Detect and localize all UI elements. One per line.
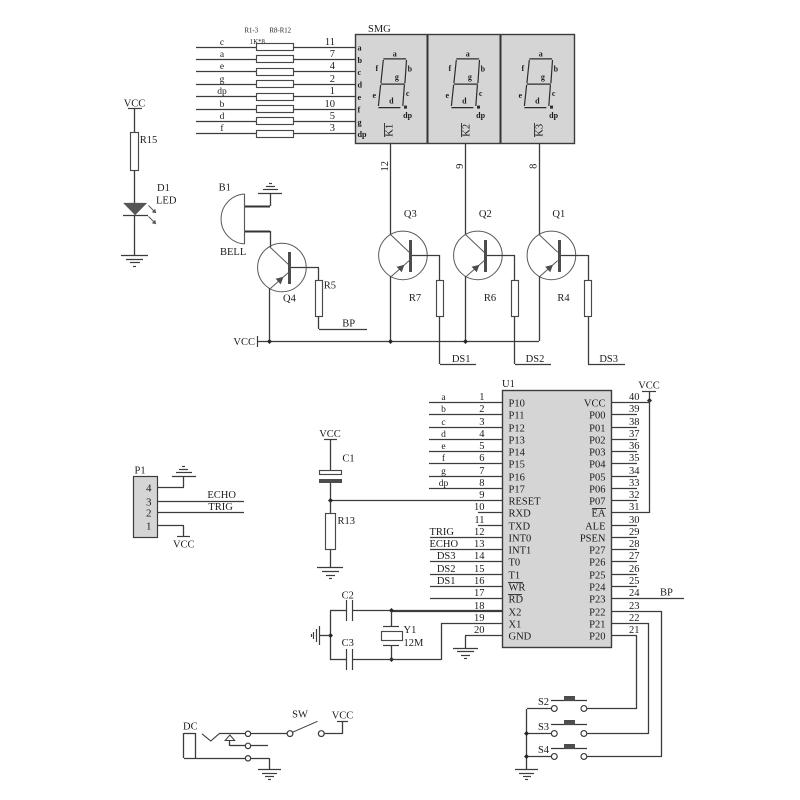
resistor R network row 3	[257, 69, 294, 76]
wire U1 pin 26	[611, 574, 637, 576]
wire base to resistor R4	[588, 255, 590, 281]
svg-text:T1: T1	[509, 571, 521, 582]
svg-text:c: c	[552, 89, 556, 98]
wire U1 pin 4	[429, 439, 502, 441]
svg-text:e: e	[441, 442, 445, 452]
svg-text:c: c	[479, 89, 483, 98]
power VCC (after switch)	[337, 721, 348, 723]
wire R6 to DS2	[514, 317, 516, 364]
svg-text:Q2: Q2	[479, 209, 492, 220]
wire U1 pin 32	[611, 500, 637, 502]
resistor R network row 5	[257, 94, 294, 101]
svg-text:a: a	[466, 49, 470, 58]
svg-text:f: f	[375, 64, 378, 73]
svg-text:12: 12	[380, 161, 391, 172]
wire U1 pin 31	[611, 512, 649, 514]
svg-text:K3: K3	[535, 124, 546, 137]
wire to side ground	[319, 635, 330, 637]
svg-text:26: 26	[629, 564, 640, 575]
svg-text:6: 6	[479, 453, 484, 464]
wire net c (left)	[196, 47, 256, 49]
svg-text:Q3: Q3	[404, 209, 417, 220]
svg-text:TXD: TXD	[509, 522, 531, 533]
svg-text:P03: P03	[589, 448, 605, 459]
svg-text:e: e	[358, 93, 362, 102]
wire U1 pin 11	[478, 525, 502, 527]
svg-text:R5: R5	[324, 281, 336, 292]
svg-text:28: 28	[629, 539, 640, 550]
svg-text:BP: BP	[342, 318, 355, 329]
svg-text:20: 20	[474, 625, 485, 636]
svg-text:K1: K1	[384, 124, 395, 137]
svg-text:14: 14	[474, 551, 485, 562]
svg-text:c: c	[441, 418, 445, 428]
svg-text:5: 5	[330, 111, 335, 122]
wire SMG pin 8 to transistor	[539, 144, 541, 235]
svg-text:1: 1	[479, 392, 484, 403]
junction RESET node	[328, 498, 333, 503]
wire X2 node to Y1	[391, 611, 393, 627]
svg-text:R8-R12: R8-R12	[270, 28, 292, 35]
wire net dp (left)	[196, 96, 256, 98]
svg-text:b: b	[358, 56, 363, 65]
ground (U1 pin 20)	[453, 648, 478, 650]
wire U1 pin 22	[611, 623, 649, 625]
svg-text:P21: P21	[589, 620, 605, 631]
svg-text:31: 31	[629, 502, 640, 513]
resistor R15	[131, 133, 139, 171]
svg-text:g: g	[468, 72, 472, 81]
svg-text:P24: P24	[589, 583, 606, 594]
wire to SMG pin 5	[294, 121, 355, 123]
svg-text:f: f	[521, 64, 524, 73]
junction X2 node	[389, 608, 394, 613]
wire to SMG pin 2	[294, 84, 355, 86]
junction Q3 emitter	[388, 339, 393, 344]
resistor R network row 4	[257, 81, 294, 88]
svg-text:11: 11	[325, 37, 335, 48]
svg-text:INT1: INT1	[509, 546, 532, 557]
resistor R7	[437, 281, 444, 317]
svg-text:TRIG: TRIG	[430, 527, 455, 538]
wire C2 to U1 X2 (pin 18 row)	[352, 610, 502, 612]
wire U1 pin 5	[429, 451, 502, 453]
svg-text:12: 12	[474, 527, 485, 538]
svg-text:DS1: DS1	[437, 576, 456, 587]
svg-text:GND: GND	[509, 632, 532, 643]
ground	[121, 255, 148, 257]
wire switch to VCC	[324, 733, 342, 735]
svg-text:P15: P15	[509, 460, 525, 471]
svg-text:P23: P23	[589, 595, 605, 606]
svg-text:P04: P04	[589, 460, 606, 471]
divider K1/K2	[427, 35, 429, 143]
svg-text:R4: R4	[557, 293, 570, 304]
svg-text:e: e	[519, 91, 523, 100]
svg-text:S2: S2	[538, 697, 549, 708]
wire SMG pin 9 to transistor	[465, 144, 467, 235]
junction S3	[524, 731, 529, 736]
svg-text:P00: P00	[589, 411, 605, 422]
wire U1 pin 21	[611, 635, 637, 637]
svg-text:VCC: VCC	[319, 429, 341, 440]
wire C1 to junction	[330, 483, 332, 501]
wire R4 to DS3	[588, 317, 590, 364]
svg-text:P14: P14	[509, 448, 526, 459]
svg-text:d: d	[220, 112, 225, 122]
wire up to U1 X1 (pin 19)	[441, 623, 443, 660]
wire U1 pin 9	[330, 500, 502, 502]
wire U1 pin 38	[611, 427, 637, 429]
wire bottom terminal to ground	[251, 758, 269, 760]
svg-text:B1: B1	[219, 182, 231, 193]
seven-segment digit K3	[524, 59, 553, 109]
svg-text:d: d	[441, 430, 446, 440]
svg-text:13: 13	[474, 539, 485, 550]
seven-segment digit K2	[451, 59, 480, 109]
svg-text:P01: P01	[589, 424, 605, 435]
svg-text:4: 4	[479, 429, 485, 440]
net label line DS1	[440, 364, 476, 366]
svg-text:e: e	[220, 62, 224, 72]
wire P1 pin 2 TRIG	[158, 512, 244, 514]
svg-text:P27: P27	[589, 546, 605, 557]
wire	[134, 216, 136, 255]
transistor Q1	[527, 231, 576, 280]
wire emitter of Q4 to VCC rail	[269, 288, 271, 341]
svg-text:15: 15	[474, 564, 485, 575]
svg-text:P13: P13	[509, 436, 525, 447]
svg-text:2: 2	[479, 404, 484, 415]
wire U1 pin 8	[429, 488, 502, 490]
svg-text:PSEN: PSEN	[580, 534, 606, 545]
svg-text:S3: S3	[538, 722, 549, 733]
svg-text:30: 30	[629, 515, 640, 526]
svg-text:dp: dp	[439, 479, 449, 489]
svg-text:19: 19	[474, 613, 485, 624]
transistor Q4	[258, 243, 307, 292]
svg-text:Y1: Y1	[404, 625, 417, 636]
svg-text:Q4: Q4	[283, 294, 297, 305]
power VCC (P1 pin 1)	[177, 536, 190, 538]
svg-text:X2: X2	[509, 608, 522, 619]
LED D1	[123, 203, 147, 215]
wire base Q4 to R5	[318, 268, 320, 281]
svg-text:RESET: RESET	[509, 497, 542, 508]
wire to SMG pin 7	[294, 59, 355, 61]
wire to SMG pin 4	[294, 71, 355, 73]
svg-text:C1: C1	[342, 454, 354, 465]
wire net g (left)	[196, 84, 256, 86]
wire U1 pin 40	[611, 402, 649, 404]
wire U1 pin 17	[430, 598, 502, 600]
svg-text:VCC: VCC	[124, 99, 146, 110]
wire S2 to U1 P20 (pin 21)	[587, 708, 637, 710]
wire net d (left)	[196, 121, 256, 123]
svg-text:23: 23	[629, 601, 640, 612]
svg-text:35: 35	[629, 453, 640, 464]
svg-text:d: d	[462, 96, 467, 105]
svg-text:39: 39	[629, 404, 640, 415]
wire net f (left)	[196, 133, 256, 135]
svg-text:b: b	[408, 65, 413, 74]
svg-text:LED: LED	[156, 196, 177, 207]
wire U1 pin 29	[611, 537, 637, 539]
wire U1 pin 1	[429, 402, 502, 404]
svg-text:7: 7	[479, 466, 484, 477]
wire emitter of Q3 to VCC rail	[390, 276, 392, 341]
svg-text:4: 4	[330, 61, 336, 72]
svg-text:INT0: INT0	[509, 534, 532, 545]
svg-text:5: 5	[479, 441, 484, 452]
wire U1 pin 36	[611, 451, 637, 453]
svg-text:P12: P12	[509, 424, 525, 435]
svg-text:4: 4	[146, 483, 152, 495]
resistor R6	[512, 281, 519, 317]
svg-text:40: 40	[629, 392, 640, 403]
svg-text:RD: RD	[509, 595, 524, 606]
svg-text:c: c	[220, 38, 224, 48]
svg-text:SMG: SMG	[368, 24, 391, 35]
svg-text:VCC: VCC	[584, 399, 606, 410]
junction S4	[524, 754, 529, 759]
svg-text:17: 17	[474, 588, 485, 599]
svg-text:BELL: BELL	[220, 247, 246, 258]
svg-text:dp: dp	[549, 111, 558, 120]
wire S3 to U1 P21 (pin 22)	[587, 733, 649, 735]
resistor R4	[585, 281, 592, 317]
svg-text:29: 29	[629, 527, 640, 538]
svg-text:DS1: DS1	[452, 354, 471, 365]
wire bell top terminal	[245, 206, 270, 208]
svg-text:b: b	[554, 65, 559, 74]
wire to SMG pin 11	[294, 47, 355, 49]
wire U1 pin 28	[611, 549, 637, 551]
net label line DS3	[588, 364, 625, 366]
wire VCC to EA (pin 31)	[649, 400, 651, 513]
wire switches common (vertical)	[526, 709, 528, 770]
svg-text:a: a	[358, 43, 362, 52]
divider K2/K3	[500, 35, 502, 143]
ground (DC jack)	[258, 769, 281, 771]
svg-text:SW: SW	[292, 710, 308, 721]
wire base to resistor R7	[439, 255, 441, 281]
wire emitter of Q2 to VCC rail	[465, 276, 467, 341]
svg-text:WR: WR	[509, 583, 526, 594]
jack spring contact	[202, 734, 219, 741]
wire Y1 to X1 node	[391, 645, 393, 660]
junction Q4 emitter	[267, 339, 272, 344]
svg-text:P07: P07	[589, 497, 605, 508]
svg-text:dp: dp	[358, 130, 368, 139]
wire S3 left	[527, 733, 551, 735]
ground (above bell)	[258, 193, 282, 195]
svg-text:b: b	[481, 65, 486, 74]
wire U1 pin 19	[441, 623, 502, 625]
svg-text:S4: S4	[538, 745, 550, 756]
svg-text:g: g	[395, 72, 399, 81]
svg-text:36: 36	[629, 441, 640, 452]
capacitor C1 (electrolytic)	[320, 471, 342, 475]
svg-text:2: 2	[146, 508, 152, 520]
svg-text:2: 2	[330, 74, 335, 85]
wire U1 pin 27	[611, 561, 637, 563]
wire to SMG pin 3	[294, 133, 355, 135]
svg-text:b: b	[441, 405, 446, 415]
wire U1 pin 6	[429, 463, 502, 465]
svg-text:c: c	[406, 89, 410, 98]
svg-text:g: g	[220, 75, 225, 85]
svg-text:VCC: VCC	[233, 337, 255, 348]
ground (below R13)	[317, 567, 343, 569]
svg-text:c: c	[358, 68, 362, 77]
resistor R network row 7	[257, 118, 294, 125]
svg-text:7: 7	[330, 49, 335, 60]
wire net b (left)	[196, 109, 256, 111]
svg-text:DC: DC	[183, 722, 198, 733]
wire U1 pin 30	[611, 525, 637, 527]
svg-text:Q1: Q1	[552, 209, 565, 220]
terminal (bottom)	[245, 756, 250, 761]
wire C2/C3 left common	[330, 611, 332, 660]
wire contact to terminal	[219, 733, 245, 735]
svg-text:P16: P16	[509, 473, 525, 484]
junction crystal ground node	[328, 633, 333, 638]
svg-text:BP: BP	[660, 588, 673, 599]
jack center pin contact	[225, 735, 235, 741]
resistor R network row 1	[257, 44, 294, 51]
wire U1 GND to ground	[465, 636, 467, 648]
svg-text:8: 8	[528, 164, 539, 169]
svg-text:3: 3	[330, 123, 335, 134]
wire U1 pin 37	[611, 439, 637, 441]
svg-text:P05: P05	[589, 473, 605, 484]
wire	[134, 170, 136, 203]
wire U1 pin 16	[430, 586, 502, 588]
wire to SMG pin 1	[294, 96, 355, 98]
svg-text:P10: P10	[509, 399, 525, 410]
seven-segment digit K1	[378, 59, 407, 109]
junction pin 40	[647, 398, 652, 403]
wire U1 pin 15	[430, 574, 502, 576]
wire bell bottom terminal	[245, 231, 270, 233]
svg-text:R7: R7	[409, 293, 421, 304]
ground (left of crystal)	[319, 626, 321, 645]
wire P1 pin 1 to VCC	[158, 525, 184, 527]
svg-text:DS3: DS3	[437, 551, 456, 562]
junction Q2 emitter	[463, 339, 468, 344]
wire U1 pin 24	[611, 598, 684, 600]
svg-text:37: 37	[629, 429, 640, 440]
svg-text:38: 38	[629, 417, 640, 428]
svg-text:e: e	[446, 91, 450, 100]
wire P1 pin 4 to ground	[158, 487, 184, 489]
wire	[134, 109, 136, 133]
svg-text:P06: P06	[589, 485, 605, 496]
svg-text:EA: EA	[592, 509, 606, 520]
wire top terminal to switch	[251, 733, 287, 735]
wire U1 pin 3	[429, 427, 502, 429]
wire U1 pin 23	[611, 611, 662, 613]
svg-text:3: 3	[479, 417, 484, 428]
svg-text:dp: dp	[476, 111, 485, 120]
svg-text:g: g	[441, 467, 446, 477]
wire U1 pin 13	[430, 549, 502, 551]
wire R7 to DS1	[439, 317, 441, 364]
wire junction to R13	[330, 501, 332, 514]
svg-text:34: 34	[629, 466, 640, 477]
svg-text:a: a	[539, 49, 543, 58]
svg-text:dp: dp	[403, 111, 412, 120]
net label line BP	[319, 329, 367, 331]
wire S4 to U1 P22 (pin 23)	[587, 756, 662, 758]
wire U1 pin 7	[429, 476, 502, 478]
resistor R13	[326, 514, 336, 550]
wire middle terminal stub	[251, 745, 268, 747]
svg-text:P20: P20	[589, 632, 605, 643]
wire U1 pin 35	[611, 463, 637, 465]
wire U1 pin 10	[478, 512, 502, 514]
svg-text:R6: R6	[484, 293, 496, 304]
svg-text:21: 21	[629, 625, 640, 636]
net label line DS2	[515, 364, 551, 366]
svg-text:g: g	[541, 72, 545, 81]
svg-text:1: 1	[330, 86, 335, 97]
transistor Q2	[454, 231, 503, 280]
svg-text:10: 10	[325, 99, 336, 110]
resistor R network row 2	[257, 56, 294, 63]
wire SMG pin 12 to transistor	[390, 144, 392, 235]
svg-text:12M: 12M	[404, 638, 425, 649]
svg-text:d: d	[535, 96, 540, 105]
svg-text:a: a	[393, 49, 397, 58]
ground (switch common)	[515, 769, 538, 771]
wire U1 pin 18	[391, 611, 502, 613]
svg-text:DS3: DS3	[599, 354, 618, 365]
svg-text:ECHO: ECHO	[207, 490, 236, 501]
svg-text:P11: P11	[509, 411, 525, 422]
junction X1 node	[389, 657, 394, 662]
wire U1 pin 2	[429, 414, 502, 416]
svg-text:b: b	[220, 100, 225, 110]
svg-text:D1: D1	[157, 183, 170, 194]
wire U1 pin 34	[611, 476, 637, 478]
svg-text:R1-3: R1-3	[245, 28, 259, 35]
resistor R network row 6	[257, 106, 294, 113]
svg-text:X1: X1	[509, 620, 522, 631]
wire U1 pin 33	[611, 488, 637, 490]
svg-text:P17: P17	[509, 485, 525, 496]
svg-text:P25: P25	[589, 571, 605, 582]
transistor Q3	[379, 231, 428, 280]
wire jack bottom to terminal	[184, 758, 245, 760]
svg-text:DS2: DS2	[437, 564, 456, 575]
terminal (middle)	[245, 743, 250, 748]
wire to SMG pin 10	[294, 109, 355, 111]
svg-text:R15: R15	[140, 135, 158, 146]
svg-text:24: 24	[629, 588, 640, 599]
svg-text:ECHO: ECHO	[430, 539, 459, 550]
svg-text:10: 10	[474, 502, 485, 513]
svg-text:VCC: VCC	[332, 710, 354, 721]
svg-text:32: 32	[629, 490, 640, 501]
crystal Y1 12M	[383, 626, 399, 628]
svg-text:1: 1	[146, 521, 152, 533]
svg-text:P22: P22	[589, 608, 605, 619]
svg-text:27: 27	[629, 551, 640, 562]
wire emitter of Q1 to VCC rail	[539, 276, 541, 341]
wire P1 pin 3 ECHO	[158, 501, 244, 503]
